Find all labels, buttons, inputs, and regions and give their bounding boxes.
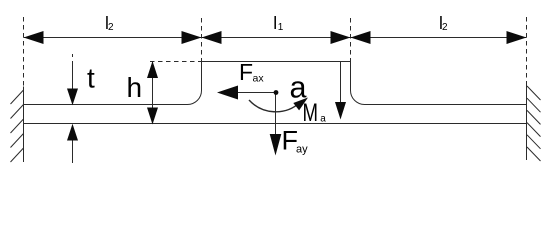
svg-text:M: M <box>303 99 319 127</box>
svg-text:ax: ax <box>253 73 265 85</box>
svg-text:ay: ay <box>296 144 308 156</box>
svg-text:l: l <box>273 13 277 33</box>
svg-text:F: F <box>239 59 253 85</box>
svg-text:h: h <box>127 72 143 103</box>
svg-text:2: 2 <box>442 22 448 33</box>
svg-text:a: a <box>320 114 326 125</box>
svg-text:1: 1 <box>278 22 284 33</box>
svg-text:2: 2 <box>108 22 114 33</box>
svg-text:t: t <box>87 63 95 94</box>
